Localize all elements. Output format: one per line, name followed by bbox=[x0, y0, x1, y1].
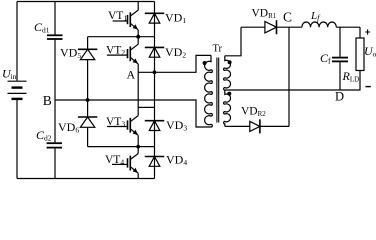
svg-text:B: B bbox=[43, 93, 52, 108]
wire VT3 emitter to VT4 collector bbox=[137, 135, 139, 153]
wire Cd bus middle bbox=[54, 40, 56, 143]
wire clamp line upper bbox=[87, 37, 89, 50]
wire Cd bus lower bbox=[54, 148, 56, 178]
wire Cf bottom lead bbox=[339, 62, 341, 90]
wire VT1 emitter to VT2 collector bbox=[137, 30, 139, 44]
battery Uin bbox=[8, 81, 27, 99]
wire secondary bottom terminal bbox=[225, 125, 250, 127]
wire center tap to node D and output minus bbox=[225, 89, 360, 91]
capacitor Cf bbox=[332, 58, 348, 62]
polarity dot primary bbox=[203, 61, 207, 65]
inductor Lf bbox=[302, 22, 336, 27]
wire VDR2 cathode riser to node C bbox=[260, 27, 289, 126]
capacitor Cd2 bbox=[47, 143, 62, 147]
svg-text:Uo: Uo bbox=[364, 44, 376, 59]
junction dot node B on clamp line bbox=[86, 98, 90, 102]
svg-text:VT4: VT4 bbox=[105, 154, 124, 167]
svg-text:VD2: VD2 bbox=[165, 45, 186, 60]
wire right rail lower bbox=[359, 71, 361, 90]
svg-text:A: A bbox=[127, 68, 136, 82]
transformer Tr primary winding bbox=[205, 55, 213, 127]
wire clamp line lower bbox=[87, 127, 89, 146]
wire diode chain bbox=[154, 2, 156, 179]
wire node A rail bbox=[138, 55, 211, 72]
svg-text:VD1: VD1 bbox=[165, 10, 186, 25]
wire VT3 collector tie bbox=[138, 106, 154, 108]
svg-text:Cf: Cf bbox=[320, 51, 331, 66]
label plus bbox=[365, 29, 370, 34]
diode VD4 bbox=[145, 157, 164, 167]
svg-text:VD4: VD4 bbox=[166, 152, 187, 167]
wire VDR1 anode bbox=[241, 26, 265, 28]
wire left bus upper bbox=[16, 2, 18, 81]
svg-text:Tr: Tr bbox=[213, 44, 223, 55]
transistor VT3 bbox=[107, 116, 138, 136]
svg-text:Uin: Uin bbox=[2, 67, 17, 82]
svg-text:VT3: VT3 bbox=[106, 116, 125, 129]
transistor VT4 bbox=[112, 154, 138, 174]
resistor RLD box bbox=[356, 38, 364, 71]
svg-text:RLD: RLD bbox=[342, 69, 360, 84]
svg-text:D: D bbox=[335, 90, 344, 104]
svg-text:VT1: VT1 bbox=[108, 10, 127, 23]
svg-text:VT2: VT2 bbox=[106, 44, 125, 57]
diode VD1 bbox=[145, 13, 164, 23]
svg-text:VD5: VD5 bbox=[60, 46, 81, 61]
svg-text:Cd2: Cd2 bbox=[36, 128, 52, 143]
transformer secondary upper winding bbox=[224, 56, 231, 90]
junction dot node A on diode chain bbox=[153, 70, 157, 74]
transistor VT1 bbox=[113, 10, 139, 30]
wire Lf to output + corner bbox=[336, 26, 360, 28]
svg-text:VD3: VD3 bbox=[166, 118, 187, 133]
wire top rail bbox=[17, 1, 155, 3]
diode VD5 bbox=[78, 49, 97, 59]
wire VDR1 cathode to node C and Lf bbox=[277, 26, 302, 28]
diode VDR2 bbox=[250, 119, 260, 133]
wire Cd bus upper bbox=[54, 2, 56, 35]
polarity dot secondary upper bbox=[228, 60, 232, 64]
transformer core bbox=[217, 58, 219, 123]
wire right rail upper bbox=[359, 27, 361, 38]
wire VT2 emitter through node A down to VT3 bbox=[137, 64, 139, 116]
junction dot VT1/VT2 bbox=[136, 35, 140, 39]
svg-text:C: C bbox=[283, 10, 292, 25]
wire VT4 emitter bbox=[137, 173, 139, 178]
wire left bus lower bbox=[16, 99, 18, 179]
wire clamp bottom (VD6 anode to VT3/VT4 junction) bbox=[88, 146, 155, 148]
label minus bbox=[366, 86, 371, 88]
svg-text:VD6: VD6 bbox=[58, 120, 79, 135]
wire VT1 collector bbox=[137, 2, 139, 11]
svg-text:Cd1: Cd1 bbox=[34, 20, 50, 35]
diode VD6 bbox=[78, 117, 97, 127]
junction dot VT3/VT4 bbox=[136, 145, 140, 149]
wire clamp line middle bbox=[87, 60, 89, 117]
wire bottom rail bbox=[17, 178, 155, 180]
svg-text:VDR1: VDR1 bbox=[252, 8, 277, 21]
wire clamp top (VD5 cathode to VT1/VT2 junction) bbox=[88, 36, 155, 38]
svg-text:VDR2: VDR2 bbox=[241, 106, 266, 119]
wire secondary top terminal bbox=[225, 27, 241, 56]
wire Cf top lead bbox=[339, 27, 341, 57]
diode VD3 bbox=[145, 121, 164, 131]
svg-text:Lf: Lf bbox=[310, 10, 321, 23]
wire node B rail bbox=[55, 100, 211, 127]
transistor VT2 bbox=[107, 44, 138, 64]
diode VD2 bbox=[145, 47, 164, 57]
diode VDR1 bbox=[265, 20, 277, 34]
polarity dot secondary lower bbox=[227, 92, 231, 96]
transformer secondary lower winding bbox=[224, 90, 231, 126]
capacitor Cd1 bbox=[47, 35, 63, 39]
